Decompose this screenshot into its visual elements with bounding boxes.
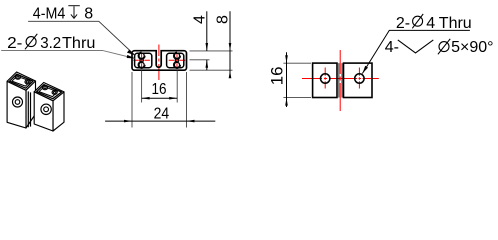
svg-text:4-: 4-: [385, 39, 399, 56]
svg-text:16: 16: [268, 67, 287, 86]
svg-text:24: 24: [154, 106, 170, 123]
svg-text:4: 4: [192, 15, 209, 24]
svg-text:Thru: Thru: [62, 35, 95, 52]
svg-text:Thru: Thru: [439, 15, 472, 32]
svg-text:4-M4: 4-M4: [33, 6, 66, 23]
svg-text:5×90°: 5×90°: [451, 39, 493, 56]
svg-text:8: 8: [215, 15, 232, 24]
svg-text:2-: 2-: [396, 15, 410, 32]
svg-text:4: 4: [426, 15, 435, 32]
svg-text:16: 16: [152, 81, 167, 98]
svg-text:8: 8: [84, 6, 93, 23]
svg-text:2-: 2-: [7, 35, 22, 52]
svg-text:3.2: 3.2: [40, 35, 61, 52]
